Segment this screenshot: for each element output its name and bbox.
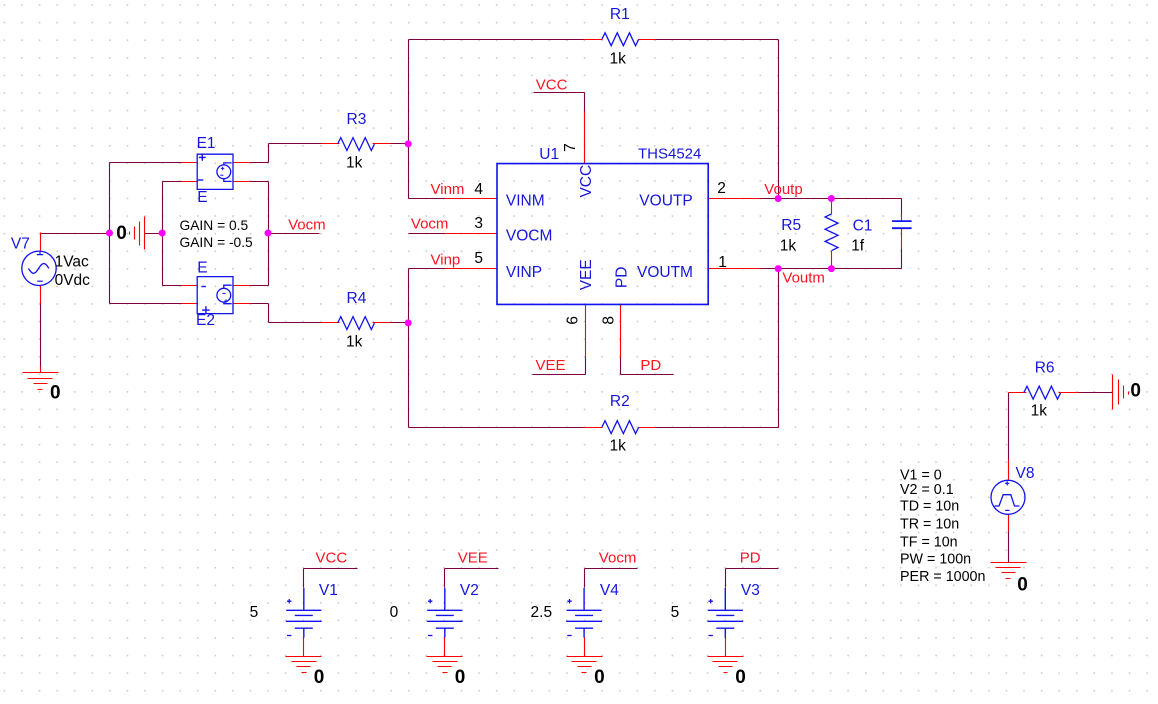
svg-text:VINP: VINP: [506, 264, 542, 281]
svg-text:0: 0: [735, 667, 746, 688]
svg-text:VEE: VEE: [458, 549, 488, 566]
svg-text:0: 0: [116, 223, 127, 244]
svg-text:4: 4: [474, 181, 483, 198]
svg-text:V2: V2: [460, 582, 479, 599]
svg-text:R1: R1: [610, 6, 630, 23]
svg-text:E1: E1: [197, 135, 216, 152]
svg-text:0: 0: [314, 667, 325, 688]
svg-text:R2: R2: [610, 393, 630, 410]
svg-text:1k: 1k: [610, 437, 627, 454]
svg-text:0: 0: [594, 667, 605, 688]
svg-text:PD: PD: [640, 357, 661, 374]
svg-text:5: 5: [671, 604, 680, 621]
svg-text:0: 0: [1130, 380, 1141, 401]
svg-text:PD: PD: [740, 549, 761, 566]
svg-text:TD = 10n: TD = 10n: [900, 498, 959, 514]
svg-text:Voutp: Voutp: [764, 181, 802, 198]
svg-text:V2 = 0.1: V2 = 0.1: [900, 482, 954, 498]
svg-text:7: 7: [562, 143, 579, 152]
svg-text:3: 3: [474, 215, 483, 232]
svg-text:R6: R6: [1035, 360, 1055, 377]
svg-text:THS4524: THS4524: [638, 146, 701, 163]
svg-text:0: 0: [50, 383, 61, 404]
svg-text:8: 8: [601, 316, 618, 325]
svg-text:V3: V3: [741, 582, 760, 599]
svg-text:1: 1: [718, 254, 727, 271]
svg-text:R3: R3: [347, 111, 367, 128]
svg-text:5: 5: [250, 604, 259, 621]
svg-text:0: 0: [1017, 575, 1028, 596]
svg-text:V8: V8: [1016, 465, 1035, 482]
svg-text:GAIN = -0.5: GAIN = -0.5: [180, 235, 254, 250]
svg-text:6: 6: [565, 316, 582, 325]
svg-text:U1: U1: [539, 146, 559, 163]
svg-text:Vinp: Vinp: [431, 252, 461, 269]
svg-text:R5: R5: [781, 217, 801, 234]
svg-text:VOCM: VOCM: [506, 228, 553, 245]
svg-text:Voutm: Voutm: [782, 270, 825, 287]
svg-text:VEE: VEE: [536, 357, 566, 374]
svg-text:VCC: VCC: [578, 165, 595, 198]
svg-text:VCC: VCC: [536, 77, 568, 94]
svg-text:1k: 1k: [780, 238, 797, 255]
svg-text:Vocm: Vocm: [599, 549, 637, 566]
svg-text:2.5: 2.5: [531, 604, 553, 621]
svg-text:E2: E2: [196, 312, 215, 329]
svg-text:TF = 10n: TF = 10n: [900, 535, 958, 551]
svg-text:PW = 100n: PW = 100n: [900, 552, 971, 568]
svg-text:VINM: VINM: [506, 192, 545, 209]
svg-text:V1: V1: [319, 582, 338, 599]
svg-text:Vinm: Vinm: [431, 181, 465, 198]
svg-text:VOUTM: VOUTM: [637, 264, 693, 281]
svg-text:1f: 1f: [851, 238, 865, 255]
svg-text:0: 0: [390, 604, 399, 621]
svg-text:5: 5: [474, 250, 483, 267]
svg-text:V4: V4: [600, 582, 619, 599]
svg-text:PER = 1000n: PER = 1000n: [900, 569, 985, 585]
svg-text:PD: PD: [613, 267, 630, 289]
svg-text:VCC: VCC: [316, 549, 348, 566]
svg-text:1k: 1k: [346, 333, 363, 350]
svg-text:1k: 1k: [346, 154, 363, 171]
svg-text:VOUTP: VOUTP: [639, 192, 692, 209]
svg-text:C1: C1: [853, 218, 873, 235]
svg-text:2: 2: [717, 180, 726, 197]
svg-text:V7: V7: [11, 236, 30, 253]
svg-text:0Vdc: 0Vdc: [55, 272, 91, 289]
svg-text:Vocm: Vocm: [288, 217, 326, 234]
svg-text:VEE: VEE: [578, 259, 595, 290]
svg-text:GAIN = 0.5: GAIN = 0.5: [180, 218, 249, 233]
svg-text:1Vac: 1Vac: [55, 253, 89, 270]
svg-text:1k: 1k: [1031, 402, 1048, 419]
svg-text:Vocm: Vocm: [411, 216, 449, 233]
svg-text:0: 0: [455, 667, 466, 688]
svg-text:TR = 10n: TR = 10n: [900, 516, 959, 532]
svg-text:E: E: [197, 260, 207, 277]
svg-text:1k: 1k: [610, 50, 627, 67]
svg-text:E: E: [197, 189, 207, 206]
svg-text:R4: R4: [347, 290, 367, 307]
